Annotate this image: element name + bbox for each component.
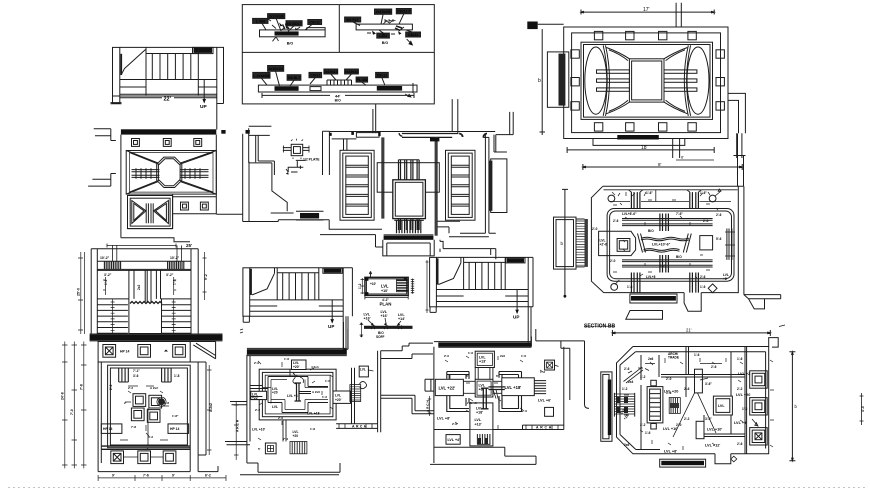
svg-text:+13': +13' [475,422,482,426]
side bars right [181,170,209,178]
svg-text:LVL+8'-6": LVL+8'-6" [622,212,637,216]
bottom steps [240,463,340,475]
top wall [329,132,495,139]
svg-text:b: b [561,241,564,246]
scattered ticks [624,358,774,450]
svg-text:3'-2": 3'-2" [104,273,112,277]
machine box lower [393,180,426,219]
top dim [583,164,742,170]
svg-text:1'-6": 1'-6" [700,191,707,195]
bracket symbol below [288,160,306,172]
landing box [129,299,162,334]
machine box upper [377,163,439,193]
svg-text:1'-6: 1'-6 [521,354,526,358]
svg-text:2'-2: 2'-2 [255,408,260,412]
svg-text:LVL +4': LVL +4' [448,438,461,442]
svg-text:7'-8: 7'-8 [80,384,84,390]
svg-text:b: b [538,78,541,84]
svg-text:8': 8' [658,162,662,167]
svg-text:3'-2: 3'-2 [148,435,153,439]
right tab [502,378,535,396]
svg-text:22': 22' [164,96,172,102]
svg-text:b: b [795,404,798,409]
svg-text:+18': +18' [476,411,483,415]
corner circles [608,195,615,202]
svg-text:2x10x14: 2x10x14 [324,70,338,74]
verticals + leaders [641,352,731,450]
svg-text:2x4: 2x4 [628,380,634,384]
LVL label boxes [251,360,351,438]
svg-text:2'-2: 2'-2 [109,384,113,390]
left dim [562,189,568,296]
bottom-left glyph box [265,443,276,454]
left dim string [234,402,239,460]
center tab [475,379,493,397]
two slabs [695,369,703,393]
top column pairs [119,368,129,382]
dim texts top [100,256,180,277]
treads [469,262,501,289]
svg-text:1'-8: 1'-8 [310,427,315,431]
treads [283,273,315,300]
svg-text:C8x11: C8x11 [408,33,418,37]
comb [394,219,424,221]
left stubs [225,402,250,445]
svg-text:10'-2": 10'-2" [100,256,110,260]
svg-text:24'-8: 24'-8 [61,392,65,400]
svg-text:6': 6' [466,374,469,378]
svg-text:6'-2: 6'-2 [205,474,211,478]
svg-text:B/O: B/O [648,229,654,233]
bottom corridor [283,420,286,442]
flight walls [146,47,198,95]
svg-text:B/O: B/O [287,42,294,46]
tiny annotation texts [592,191,729,289]
right diagonal + wall [190,342,215,472]
svg-text:PLAN: PLAN [380,302,392,307]
top black bar [121,129,216,134]
dim 22' [120,97,217,99]
door leaf [122,50,146,75]
svg-text:2'-6: 2'-6 [613,219,619,223]
leaders [353,14,412,33]
svg-text:+10: +10 [623,414,630,421]
svg-text:2'-0: 2'-0 [666,377,672,381]
bottom comb [290,442,307,454]
center squares [133,394,146,407]
svg-text:2x10x14: 2x10x14 [345,70,359,74]
svg-text:SOFF: SOFF [376,335,385,339]
center I-beam posts [295,383,302,401]
right ticks [411,279,414,294]
beam [260,30,326,37]
left wall [431,347,434,463]
svg-text:2'-2: 2'-2 [640,423,646,427]
svg-text:LVL: LVL [272,405,278,409]
svg-text:+20: +20 [272,391,278,395]
svg-text:18': 18' [641,145,648,151]
bottom inner beams [622,260,713,267]
right wall [449,135,496,237]
svg-text:B/O: B/O [335,99,341,103]
svg-text:ARCH: ARCH [536,426,553,430]
svg-text:1'-2: 1'-2 [322,395,327,399]
texts [622,352,748,447]
bowtie panel [128,196,173,229]
svg-text:2'-0: 2'-0 [592,227,598,231]
svg-text:7'-6: 7'-6 [143,474,149,478]
svg-text:+20: +20 [293,434,299,438]
right comb [534,381,546,394]
dim below [262,93,414,98]
svg-text:B/O: B/O [676,255,682,259]
beams [661,347,745,437]
inner boundary [620,352,766,450]
comb right [350,385,361,402]
svg-text:LVL +18': LVL +18' [505,385,522,390]
side walls [121,135,216,238]
scribble circle [360,381,367,388]
bottom risers [673,139,680,159]
svg-text:5/8 BLT: 5/8 BLT [288,76,302,80]
svg-text:7'-8: 7'-8 [131,425,136,429]
svg-text:2x6: 2x6 [624,443,630,447]
svg-text:2'-6: 2'-6 [716,213,722,217]
svg-text:+20': +20' [335,398,342,402]
outer rect [564,27,728,139]
svg-text:5': 5' [258,447,261,451]
right lower boundary [173,194,217,229]
top-right walls [531,329,589,408]
up arrow [203,80,205,101]
svg-text:2'-0: 2'-0 [254,361,259,365]
leader scribbles [293,373,304,384]
comb block [669,398,680,414]
svg-text:17': 17' [643,7,650,13]
right end tick [413,83,417,93]
svg-text:TRADE: TRADE [668,356,679,360]
black header [507,258,525,262]
left treads [97,305,128,334]
svg-text:9': 9' [172,474,175,478]
top hatched flights [97,261,191,269]
svg-text:1'-2: 1'-2 [104,279,108,285]
svg-text:UP: UP [200,104,207,110]
right verticals [727,229,734,260]
svg-text:1'-0: 1'-0 [660,264,666,268]
right jamb [343,268,352,349]
svg-text:2'-0: 2'-0 [610,259,616,263]
svg-text:1'-6: 1'-6 [627,285,633,289]
upper room verticals [129,270,161,302]
svg-text:5'-6: 5'-6 [716,237,722,241]
right wall pair [378,351,381,432]
coffer ring [447,372,469,379]
svg-text:LVL +20: LVL +20 [736,393,750,397]
svg-text:2'-2: 2'-2 [737,387,743,391]
svg-text:7'-1": 7'-1" [133,369,140,373]
svg-text:2'-0: 2'-0 [444,354,449,358]
svg-text:UP: UP [513,315,519,320]
svg-text:L 4x4: L 4x4 [256,19,265,23]
perimeter squares [571,31,725,131]
small dim strings [103,277,176,295]
svg-text:C8x11.5: C8x11.5 [397,10,410,14]
side bars [597,70,697,91]
top tab [475,351,494,367]
svg-text:1'-6: 1'-6 [325,379,330,383]
heavy bar [438,342,531,346]
svg-text:1'-6: 1'-6 [694,353,700,357]
svg-text:PL 3/8: PL 3/8 [357,78,368,82]
top posts [631,192,640,208]
svg-text:2x2: 2x2 [137,284,141,290]
svg-text:1'-6: 1'-6 [700,285,706,289]
bottom band [101,446,190,449]
svg-text:7'-6": 7'-6" [676,212,683,216]
svg-text:LVL +10: LVL +10 [663,427,677,431]
right dim [789,352,795,461]
right dim string [203,252,207,300]
inner wall pairs [381,137,384,218]
two squares [181,202,189,210]
svg-text:1'-2: 1'-2 [358,283,362,289]
flight walls [461,257,505,289]
coffer rect [126,151,216,195]
bottom right risers [734,133,746,158]
dim texts upper [109,369,180,390]
label boxes [101,424,122,434]
svg-text:HP 14: HP 14 [120,350,129,354]
svg-text:2'-6: 2'-6 [737,442,743,446]
top-right risers [676,3,681,27]
svg-text:+14': +14' [398,317,405,321]
svg-text:1'-8: 1'-8 [164,401,169,405]
left dim line [540,29,546,135]
svg-text:LVL +10': LVL +10' [707,428,722,432]
svg-text:2x10x3/8: 2x10x3/8 [269,15,284,19]
right jamb [528,257,533,342]
dim below [365,296,408,300]
svg-text:UP: UP [328,324,334,329]
svg-text:LVL: LVL [381,284,389,289]
svg-text:LVL: LVL [335,394,341,398]
left protrusion [554,217,577,269]
svg-text:9'-2: 9'-2 [204,274,208,280]
svg-text:2x6: 2x6 [648,357,654,361]
svg-text:1'-6: 1'-6 [645,431,651,435]
left block [599,231,636,255]
svg-text:+13': +13' [479,360,486,364]
door leaf [439,263,461,285]
svg-text:LVL +10': LVL +10' [252,428,265,432]
svg-text:LVL: LVL [360,368,366,372]
svg-text:LVL: LVL [718,404,725,408]
svg-text:1'-2: 1'-2 [540,370,545,374]
svg-text:LVL+8: LVL+8 [646,275,656,279]
svg-text:+2'-6: +2'-6 [600,242,608,246]
right dim string [207,365,212,455]
svg-text:LVL +18: LVL +18 [307,412,320,416]
outer boundary [617,338,779,454]
black header [194,48,213,53]
central rect [629,59,664,102]
bottom step [715,454,731,464]
up arrow [516,290,518,312]
right elevator shaft [446,150,476,220]
bottom dim [567,147,714,153]
svg-text:SECTION-BB: SECTION-BB [584,324,616,330]
top edge [120,46,224,48]
right column wall [745,347,747,454]
left dim strings [62,342,87,469]
left jamb [430,257,437,306]
svg-text:2'-0: 2'-0 [703,219,709,223]
posts [399,160,420,230]
left tab [435,379,463,395]
scattered tiny marks [258,361,333,440]
svg-text:7'-4: 7'-4 [283,437,288,441]
svg-text:LVL+10'-6": LVL+10'-6" [652,243,671,247]
top inner beams [622,219,713,226]
svg-text:25': 25' [186,243,192,248]
svg-text:4'-0: 4'-0 [861,406,865,412]
svg-text:5/8 BOLT: 5/8 BOLT [286,22,302,26]
flight walls [275,268,319,300]
top panel [98,342,190,363]
leaders [261,71,385,86]
svg-text:A R C H: A R C H [236,419,240,432]
svg-text:2'-6: 2'-6 [452,422,457,426]
svg-text:L 4x4x3/8: L 4x4x3/8 [253,74,269,78]
svg-text:10'-2": 10'-2" [170,256,180,260]
lower dim small [676,159,714,161]
svg-text:5/8 PLT: 5/8 PLT [346,18,359,22]
svg-text:2'-6: 2'-6 [278,416,283,420]
svg-text:2'-6: 2'-6 [711,365,717,369]
right outer wall pair [738,134,744,187]
svg-text:1'-2: 1'-2 [173,279,177,285]
svg-text:A 2x2: A 2x2 [209,403,213,412]
svg-text:1'-6: 1'-6 [468,351,473,355]
right treads [162,305,192,334]
heavy bar [247,349,347,355]
landing rails [113,80,217,97]
landing rails [436,290,528,307]
svg-text:LVL +2: LVL +2 [738,372,750,376]
svg-text:2x10x1/4: 2x10x1/4 [268,67,283,71]
right corridor S-wall [381,395,434,414]
cell B : labels [345,9,421,46]
cell C : bottom detail [253,66,417,103]
mid rails [97,298,191,300]
svg-text:2'-2: 2'-2 [128,386,133,390]
diagonals [126,151,216,195]
outer walls [91,249,198,335]
svg-text:LVL +8': LVL +8' [437,417,450,421]
scallop break [130,302,162,304]
left jamb [113,47,120,103]
bottom right [437,221,495,252]
svg-text:2'-2: 2'-2 [684,417,690,421]
inner panel [581,42,713,119]
ladder [647,387,663,423]
door leaf [252,273,274,295]
top edge [250,267,353,269]
svg-text:+10': +10' [381,289,388,293]
top right riser [496,112,513,135]
landing rails [250,300,344,316]
top-left wall [243,126,330,221]
right wall stub [728,93,745,133]
bottom dim string [98,475,226,481]
svg-text:C8x11: C8x11 [377,74,387,78]
black header [324,269,342,273]
top right steps [381,343,433,358]
bottom tab [684,293,701,312]
bottom black bar [617,135,659,140]
svg-text:3'-6: 3'-6 [133,374,139,378]
wavy center panel [638,234,692,253]
svg-text:ARCH: ARCH [352,425,368,429]
svg-text:LVL +9: LVL +9 [734,421,746,425]
svg-text:+8': +8' [723,277,728,281]
beam [258,85,417,92]
svg-text:1'-6: 1'-6 [737,357,743,361]
svg-text:9': 9' [112,474,115,478]
inner ring [607,209,734,282]
bottom bar [660,459,706,467]
svg-text:3'-2": 3'-2" [166,273,174,277]
treads [152,54,191,80]
svg-text:1'-8: 1'-8 [174,374,180,378]
top edge [436,256,533,258]
comb right [397,280,408,290]
svg-text:A 2x2: A 2x2 [150,386,158,390]
arch band + right wall [336,424,378,429]
svg-text:A 2x6: A 2x6 [312,390,320,394]
svg-text:2'-6: 2'-6 [684,387,690,391]
top-left column [323,131,330,175]
leaders [262,19,312,32]
bottom comb [477,434,490,444]
bottom posts to ring [631,273,640,293]
corner black block [527,22,537,30]
bottom steps [430,447,536,464]
up arrow [331,300,333,321]
svg-text:2x6: 2x6 [500,354,505,358]
tread dim ticks [111,299,176,334]
svg-text:LVL +8': LVL +8' [664,450,677,454]
svg-text:1'-6": 1'-6" [646,191,653,195]
beam [356,24,412,30]
svg-text:B/O: B/O [382,41,389,45]
left elevator shaft [340,150,374,220]
outer boundary [591,186,738,292]
I-beam [481,388,488,409]
left corridor arms [250,386,262,400]
svg-text:25'-0: 25'-0 [77,288,81,296]
bottom black bar [384,234,434,236]
svg-text:2'-6: 2'-6 [624,367,630,371]
bottom squares [111,451,124,464]
svg-text:LVL +20: LVL +20 [664,390,678,394]
bottom-left interior [320,220,383,247]
right jamb [217,47,224,129]
svg-text:7'-0: 7'-0 [70,409,74,415]
ellipses [585,47,607,114]
left outer dim strings [78,252,85,334]
